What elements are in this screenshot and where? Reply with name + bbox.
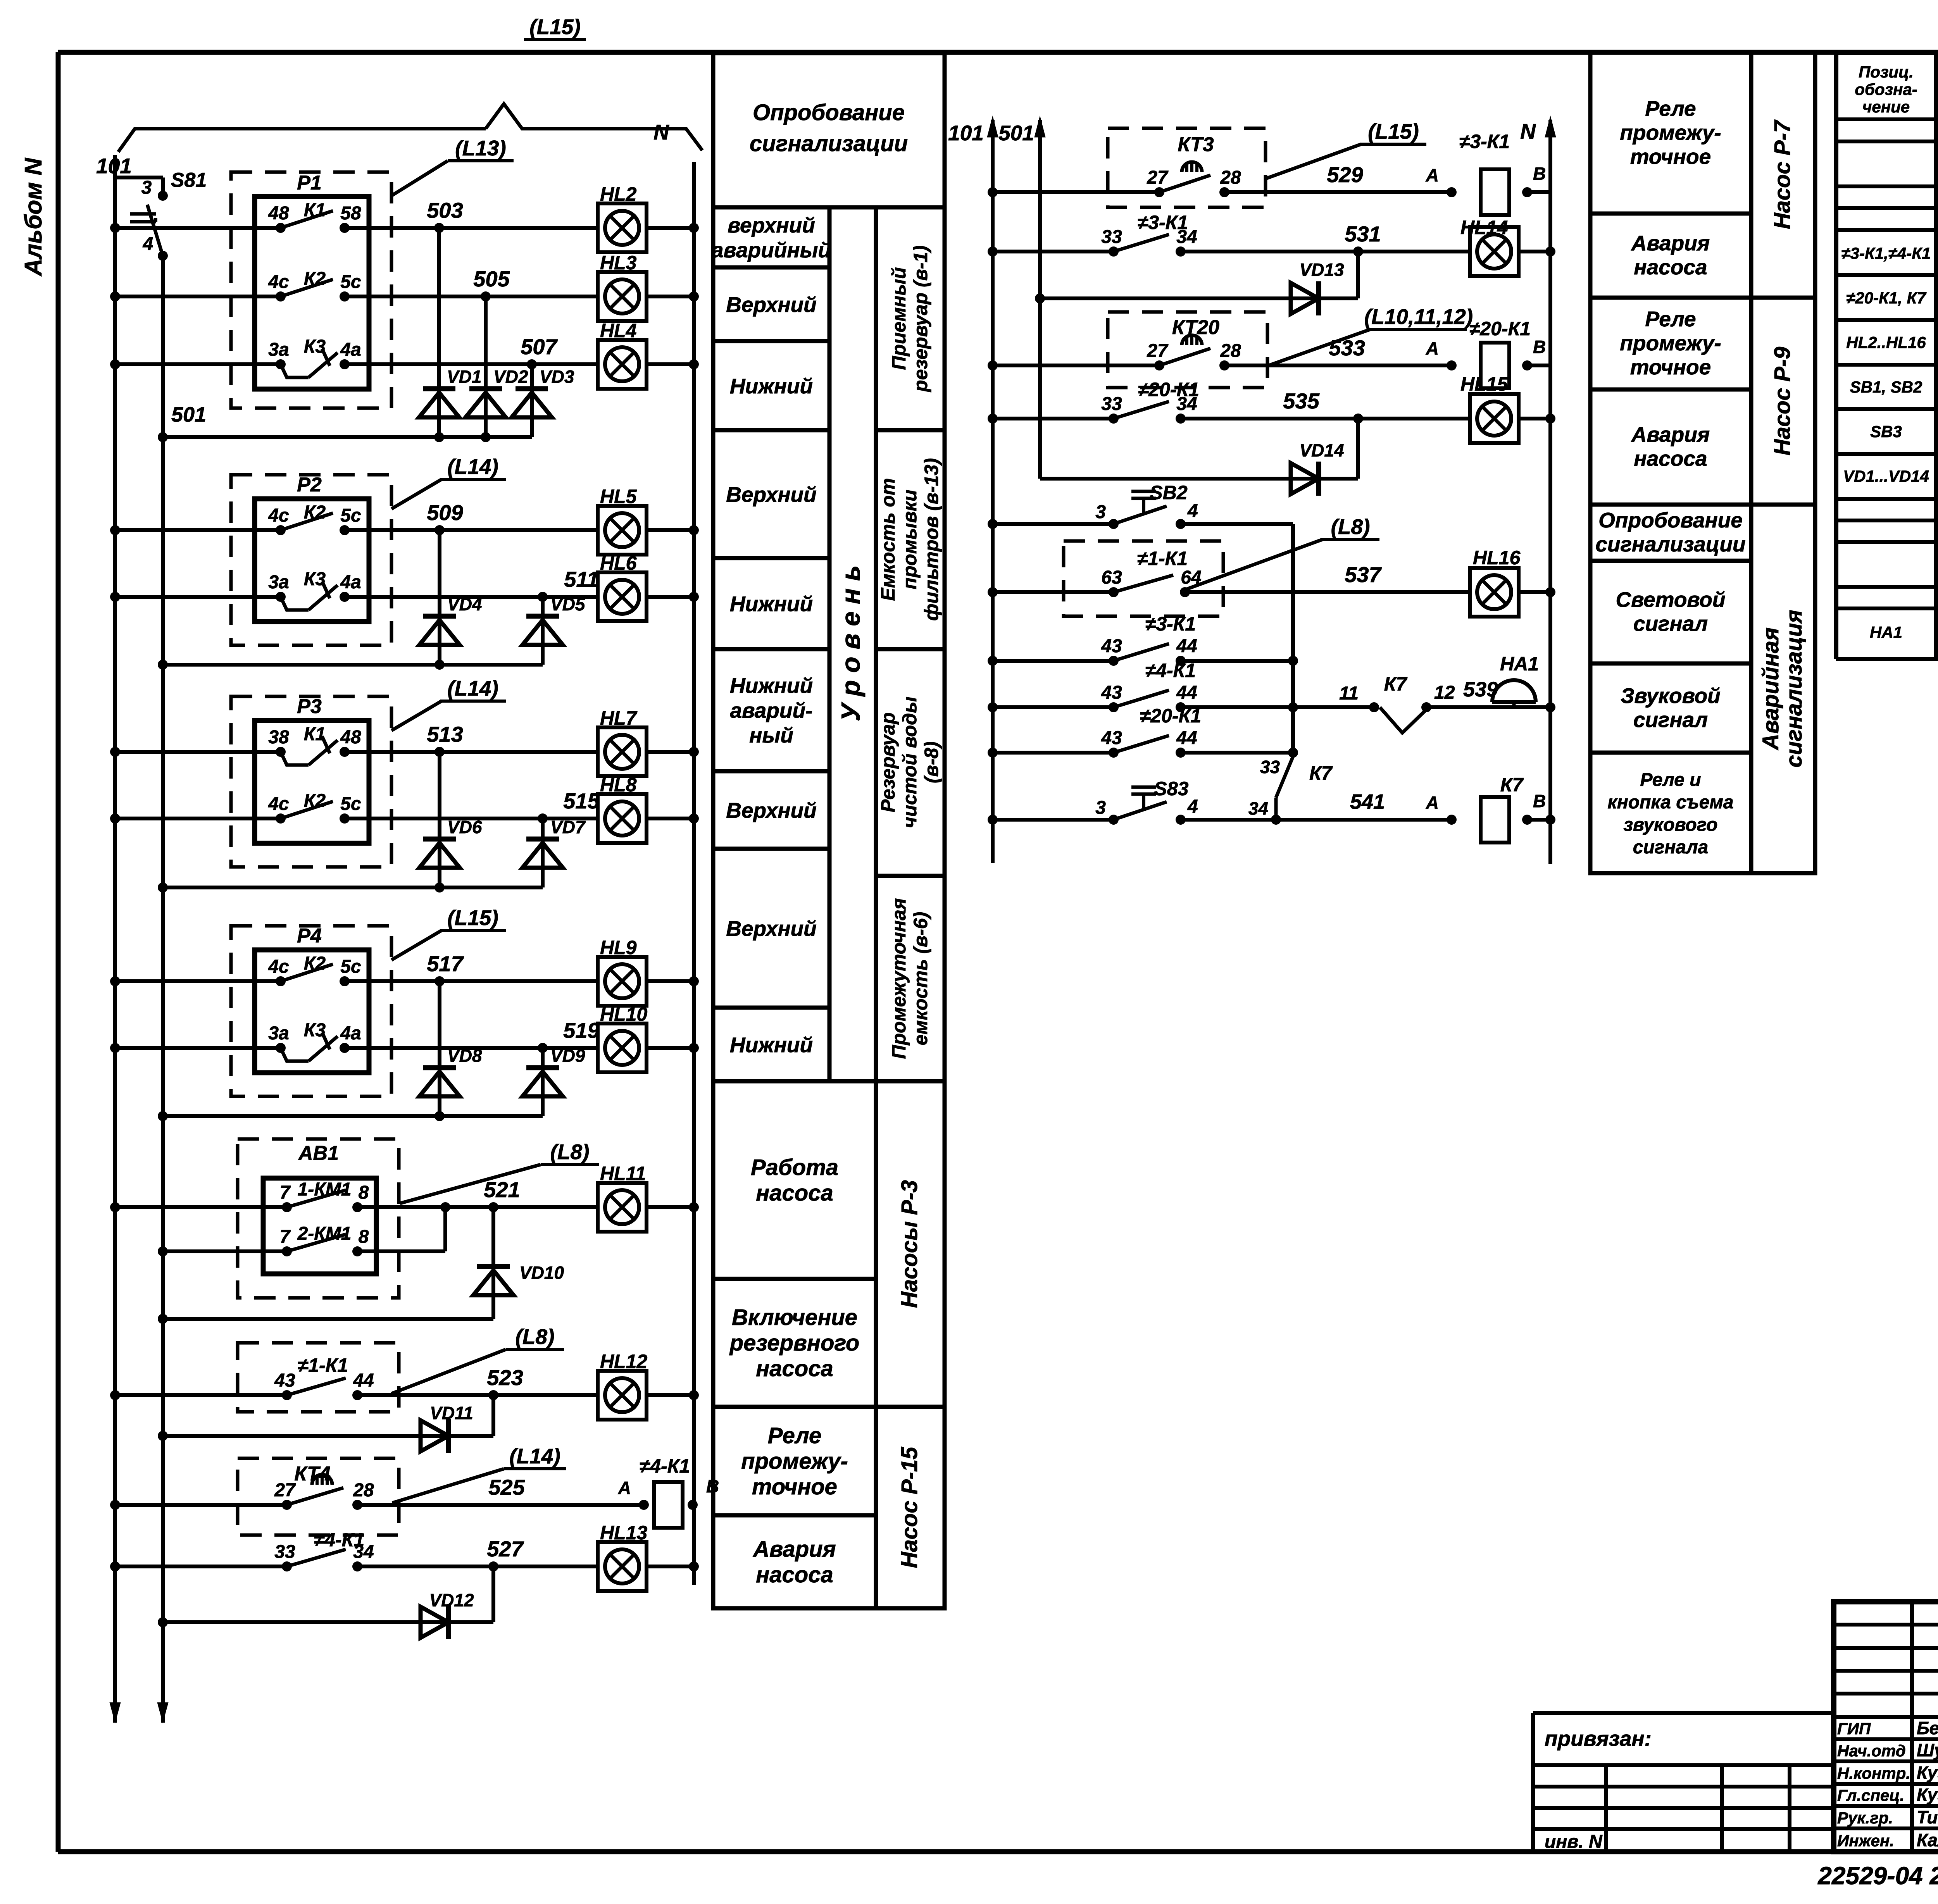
svg-text:513: 513 bbox=[427, 722, 463, 746]
svg-text:P2: P2 bbox=[297, 474, 322, 496]
svg-text:≠4-К1: ≠4-К1 bbox=[640, 1455, 690, 1477]
svg-text:4а: 4а bbox=[340, 339, 361, 360]
svg-text:А: А bbox=[1426, 793, 1439, 813]
svg-text:звукового: звукового bbox=[1624, 815, 1718, 835]
svg-text:Белоус: Белоус bbox=[1917, 1718, 1938, 1738]
svg-text:аварий-: аварий- bbox=[730, 698, 813, 722]
svg-text:Включение: Включение bbox=[732, 1305, 857, 1330]
svg-text:НА1: НА1 bbox=[1870, 623, 1902, 641]
svg-text:НА1: НА1 bbox=[1500, 653, 1539, 675]
svg-text:HL3: HL3 bbox=[600, 252, 637, 274]
svg-text:К2: К2 bbox=[304, 791, 326, 811]
svg-text:Реле: Реле bbox=[1645, 96, 1696, 121]
svg-text:519: 519 bbox=[563, 1018, 599, 1042]
svg-text:Световой: Световой bbox=[1616, 588, 1726, 612]
svg-text:501: 501 bbox=[171, 403, 206, 426]
svg-text:Нижний: Нижний bbox=[730, 374, 813, 398]
svg-text:емкость (в-6): емкость (в-6) bbox=[910, 912, 931, 1045]
svg-text:48: 48 bbox=[268, 203, 289, 224]
svg-text:насоса: насоса bbox=[1634, 446, 1707, 470]
svg-text:Нижний: Нижний bbox=[730, 674, 813, 698]
svg-text:8: 8 bbox=[359, 1227, 369, 1247]
svg-text:HL10: HL10 bbox=[600, 1003, 647, 1025]
svg-text:(L10,11,12): (L10,11,12) bbox=[1364, 305, 1473, 329]
svg-text:43: 43 bbox=[274, 1370, 295, 1391]
svg-text:Авария: Авария bbox=[752, 1537, 836, 1562]
svg-text:(L14): (L14) bbox=[447, 455, 498, 479]
svg-text:HL14: HL14 bbox=[1460, 217, 1508, 238]
svg-text:К3: К3 bbox=[304, 336, 326, 357]
svg-text:≠3-К1: ≠3-К1 bbox=[1145, 613, 1196, 635]
svg-text:(L15): (L15) bbox=[529, 15, 580, 39]
svg-text:точное: точное bbox=[752, 1474, 837, 1499]
svg-text:101: 101 bbox=[948, 121, 984, 145]
svg-text:К3: К3 bbox=[304, 569, 326, 589]
svg-text:VD6: VD6 bbox=[447, 817, 482, 837]
svg-text:Инжен.: Инжен. bbox=[1837, 1832, 1894, 1850]
svg-text:529: 529 bbox=[1327, 162, 1363, 187]
svg-text:1-КМ1: 1-КМ1 bbox=[298, 1179, 352, 1200]
svg-text:Верхний: Верхний bbox=[726, 293, 817, 317]
svg-text:27: 27 bbox=[1147, 167, 1169, 188]
svg-text:≠3-К1: ≠3-К1 bbox=[1138, 212, 1188, 233]
svg-text:HL15: HL15 bbox=[1460, 373, 1508, 395]
svg-text:фильтров (в-13): фильтров (в-13) bbox=[921, 458, 942, 621]
svg-text:(L8): (L8) bbox=[516, 1325, 555, 1349]
svg-text:(L15): (L15) bbox=[1368, 119, 1419, 143]
svg-text:HL12: HL12 bbox=[600, 1351, 647, 1372]
svg-text:VD11: VD11 bbox=[430, 1403, 473, 1423]
svg-text:насоса: насоса bbox=[756, 1180, 833, 1206]
svg-text:чение: чение bbox=[1862, 98, 1910, 116]
svg-text:523: 523 bbox=[487, 1365, 523, 1390]
svg-text:33: 33 bbox=[1101, 227, 1122, 247]
svg-text:541: 541 bbox=[1350, 790, 1385, 813]
svg-text:5с: 5с bbox=[340, 794, 361, 814]
svg-text:Нач.отд: Нач.отд bbox=[1837, 1742, 1906, 1760]
svg-text:3: 3 bbox=[1095, 502, 1106, 522]
svg-text:533: 533 bbox=[1329, 336, 1365, 360]
svg-text:А: А bbox=[1426, 338, 1439, 358]
svg-text:HL11: HL11 bbox=[600, 1163, 646, 1184]
svg-text:≠4-К1: ≠4-К1 bbox=[1145, 660, 1196, 681]
svg-text:≠4-К1: ≠4-К1 bbox=[314, 1529, 364, 1551]
svg-text:К1: К1 bbox=[304, 200, 326, 221]
svg-text:4: 4 bbox=[1187, 501, 1198, 521]
svg-text:сигнал: сигнал bbox=[1633, 708, 1708, 732]
svg-text:S81: S81 bbox=[171, 169, 207, 191]
svg-text:7: 7 bbox=[280, 1227, 291, 1247]
svg-text:515: 515 bbox=[563, 789, 600, 813]
svg-text:Калмыков: Калмыков bbox=[1917, 1830, 1938, 1850]
svg-text:В: В bbox=[1533, 164, 1546, 184]
svg-text:резервного: резервного bbox=[729, 1330, 860, 1356]
svg-text:537: 537 bbox=[1345, 562, 1382, 587]
svg-text:44: 44 bbox=[353, 1370, 374, 1391]
svg-text:2-КМ1: 2-КМ1 bbox=[297, 1223, 352, 1244]
svg-text:535: 535 bbox=[1283, 389, 1319, 413]
svg-text:4с: 4с bbox=[268, 956, 289, 977]
svg-text:VD10: VD10 bbox=[519, 1263, 564, 1283]
svg-text:промежу-: промежу- bbox=[1620, 121, 1721, 145]
svg-text:511: 511 bbox=[564, 567, 598, 591]
svg-text:43: 43 bbox=[1101, 682, 1122, 703]
svg-text:HL4: HL4 bbox=[600, 320, 636, 341]
svg-text:точное: точное bbox=[1630, 145, 1711, 169]
svg-text:(L8): (L8) bbox=[1331, 515, 1370, 539]
svg-text:В: В bbox=[1533, 791, 1546, 811]
svg-text:27: 27 bbox=[274, 1480, 296, 1501]
svg-text:HL5: HL5 bbox=[600, 486, 637, 507]
svg-text:Н.контр.: Н.контр. bbox=[1837, 1764, 1910, 1782]
svg-text:АВ1: АВ1 bbox=[298, 1142, 339, 1165]
svg-text:33: 33 bbox=[1101, 394, 1122, 414]
svg-text:101: 101 bbox=[96, 154, 132, 178]
svg-text:VD12: VD12 bbox=[429, 1590, 474, 1610]
svg-text:HL9: HL9 bbox=[600, 937, 637, 958]
svg-text:VD5: VD5 bbox=[550, 594, 586, 614]
svg-text:К7: К7 bbox=[1500, 774, 1524, 796]
svg-text:28: 28 bbox=[353, 1480, 374, 1501]
svg-text:34: 34 bbox=[1248, 798, 1268, 818]
svg-text:517: 517 bbox=[427, 951, 464, 976]
svg-text:Емкость от: Емкость от bbox=[877, 478, 899, 601]
svg-text:507: 507 bbox=[521, 334, 558, 359]
svg-text:525: 525 bbox=[488, 1475, 525, 1499]
svg-text:≠3-К1: ≠3-К1 bbox=[1459, 131, 1510, 152]
svg-text:VD2: VD2 bbox=[493, 367, 528, 387]
svg-text:насоса: насоса bbox=[1634, 255, 1707, 279]
svg-text:≠1-К1: ≠1-К1 bbox=[1137, 548, 1188, 569]
svg-text:VD3: VD3 bbox=[540, 367, 574, 387]
svg-text:43: 43 bbox=[1101, 636, 1122, 656]
svg-text:А: А bbox=[1426, 165, 1439, 185]
svg-text:SB3: SB3 bbox=[1870, 422, 1902, 441]
svg-text:44: 44 bbox=[1176, 636, 1197, 656]
svg-text:У р о в е н ь: У р о в е н ь bbox=[836, 565, 866, 722]
svg-text:Верхний: Верхний bbox=[726, 917, 817, 941]
svg-text:инв. N: инв. N bbox=[1545, 1832, 1603, 1852]
svg-text:HL6: HL6 bbox=[600, 552, 637, 574]
svg-text:верхний: верхний bbox=[728, 213, 815, 237]
svg-text:5с: 5с bbox=[340, 505, 361, 526]
svg-text:Резервуар: Резервуар bbox=[877, 712, 899, 812]
svg-text:В: В bbox=[1533, 337, 1546, 357]
svg-text:Шунский: Шунский bbox=[1917, 1740, 1938, 1760]
svg-text:А: А bbox=[618, 1478, 631, 1498]
svg-text:Насос Р-15: Насос Р-15 bbox=[897, 1447, 922, 1568]
svg-text:5с: 5с bbox=[340, 272, 361, 292]
svg-text:28: 28 bbox=[1220, 167, 1241, 188]
svg-text:3а: 3а bbox=[268, 572, 289, 593]
svg-text:Насос Р-9: Насос Р-9 bbox=[1770, 347, 1795, 455]
svg-text:509: 509 bbox=[427, 500, 463, 525]
svg-text:4а: 4а bbox=[340, 572, 361, 593]
svg-text:HL8: HL8 bbox=[600, 774, 637, 796]
svg-text:К7: К7 bbox=[1384, 673, 1408, 695]
svg-text:Работа: Работа bbox=[751, 1155, 838, 1180]
svg-text:N: N bbox=[1520, 119, 1536, 143]
svg-text:К2: К2 bbox=[304, 269, 326, 289]
svg-text:сигнализации: сигнализации bbox=[1595, 532, 1745, 556]
svg-text:Приемный: Приемный bbox=[888, 267, 910, 370]
svg-text:VD7: VD7 bbox=[550, 817, 586, 837]
svg-text:VD14: VD14 bbox=[1299, 440, 1344, 460]
svg-text:3: 3 bbox=[141, 177, 152, 198]
svg-text:К3: К3 bbox=[304, 1020, 326, 1041]
svg-text:≠20-К1, К7: ≠20-К1, К7 bbox=[1846, 289, 1926, 307]
svg-text:4а: 4а bbox=[340, 1023, 361, 1044]
svg-text:4с: 4с bbox=[268, 505, 289, 526]
svg-text:насоса: насоса bbox=[756, 1562, 833, 1587]
svg-text:58: 58 bbox=[340, 203, 361, 224]
svg-text:(в-8): (в-8) bbox=[921, 741, 942, 783]
svg-text:5с: 5с bbox=[340, 956, 361, 977]
svg-text:8: 8 bbox=[359, 1182, 369, 1203]
svg-text:P4: P4 bbox=[297, 925, 322, 947]
svg-text:промежу-: промежу- bbox=[1620, 331, 1721, 355]
svg-text:кнопка съема: кнопка съема bbox=[1607, 792, 1733, 813]
svg-text:503: 503 bbox=[427, 198, 463, 222]
svg-text:насоса: насоса bbox=[756, 1356, 833, 1381]
svg-text:33: 33 bbox=[274, 1542, 295, 1562]
svg-text:527: 527 bbox=[487, 1537, 524, 1561]
svg-text:VD1...VD14: VD1...VD14 bbox=[1843, 467, 1929, 485]
svg-text:Гл.спец.: Гл.спец. bbox=[1837, 1786, 1904, 1804]
svg-text:Звуковой: Звуковой bbox=[1621, 684, 1721, 708]
svg-text:Аварийная: Аварийная bbox=[1758, 627, 1783, 751]
svg-text:(L13): (L13) bbox=[455, 136, 506, 160]
svg-text:чистой воды: чистой воды bbox=[899, 696, 921, 828]
svg-text:сигнала: сигнала bbox=[1633, 837, 1708, 858]
svg-text:Титов: Титов bbox=[1917, 1807, 1938, 1827]
svg-text:HL2: HL2 bbox=[600, 183, 637, 205]
svg-text:≠20-К1: ≠20-К1 bbox=[1469, 318, 1531, 339]
svg-text:44: 44 bbox=[1176, 682, 1197, 703]
svg-text:HL7: HL7 bbox=[600, 707, 638, 729]
svg-text:VD9: VD9 bbox=[550, 1046, 585, 1066]
svg-text:Кузнецов: Кузнецов bbox=[1917, 1785, 1938, 1805]
svg-text:≠3-К1,≠4-К1: ≠3-К1,≠4-К1 bbox=[1841, 244, 1931, 262]
svg-text:К1: К1 bbox=[304, 724, 326, 744]
svg-text:SB2: SB2 bbox=[1150, 482, 1187, 503]
svg-text:SB1, SB2: SB1, SB2 bbox=[1850, 378, 1922, 396]
svg-text:Позиц.: Позиц. bbox=[1859, 63, 1914, 81]
svg-text:Насосы Р-3: Насосы Р-3 bbox=[897, 1180, 922, 1308]
svg-text:сигнал: сигнал bbox=[1633, 612, 1708, 636]
svg-text:3а: 3а bbox=[268, 1023, 289, 1044]
svg-text:≠1-К1: ≠1-К1 bbox=[298, 1354, 348, 1376]
svg-text:44: 44 bbox=[1176, 728, 1197, 748]
svg-text:63: 63 bbox=[1101, 567, 1122, 588]
svg-text:Авария: Авария bbox=[1631, 422, 1710, 446]
svg-text:7: 7 bbox=[280, 1182, 291, 1203]
svg-text:11: 11 bbox=[1339, 683, 1359, 704]
svg-text:4: 4 bbox=[1187, 796, 1198, 817]
svg-text:(L15): (L15) bbox=[447, 906, 498, 930]
svg-text:≠20-К1: ≠20-К1 bbox=[1138, 379, 1199, 400]
svg-text:Нижний: Нижний bbox=[730, 592, 813, 616]
svg-text:Промежуточная: Промежуточная bbox=[888, 898, 910, 1059]
svg-text:33: 33 bbox=[1260, 757, 1280, 777]
svg-text:обозна-: обозна- bbox=[1855, 80, 1917, 98]
svg-text:VD13: VD13 bbox=[1299, 260, 1344, 280]
svg-text:HL13: HL13 bbox=[600, 1522, 647, 1544]
svg-text:VD4: VD4 bbox=[447, 594, 482, 614]
svg-text:22529-04 27: 22529-04 27 bbox=[1817, 1862, 1938, 1890]
svg-text:КТ3: КТ3 bbox=[1178, 133, 1214, 156]
svg-text:3: 3 bbox=[1095, 798, 1106, 818]
svg-text:38: 38 bbox=[268, 727, 289, 748]
svg-text:промежу-: промежу- bbox=[741, 1449, 848, 1474]
svg-text:Рук.гр.: Рук.гр. bbox=[1837, 1809, 1893, 1827]
svg-text:P3: P3 bbox=[297, 695, 322, 718]
svg-text:сигнализации: сигнализации bbox=[750, 131, 908, 156]
svg-text:К2: К2 bbox=[304, 502, 326, 523]
svg-text:4с: 4с bbox=[268, 272, 289, 292]
svg-text:Реле и: Реле и bbox=[1640, 770, 1701, 790]
svg-text:28: 28 bbox=[1220, 341, 1241, 361]
svg-text:48: 48 bbox=[340, 727, 361, 748]
svg-text:4с: 4с bbox=[268, 794, 289, 814]
svg-text:сигнализация: сигнализация bbox=[1781, 610, 1807, 767]
svg-text:К2: К2 bbox=[304, 953, 326, 974]
svg-text:505: 505 bbox=[473, 267, 510, 291]
svg-text:501: 501 bbox=[998, 121, 1034, 145]
svg-text:Кузнецов: Кузнецов bbox=[1917, 1763, 1938, 1783]
svg-text:Опробование: Опробование bbox=[753, 100, 905, 125]
svg-text:43: 43 bbox=[1101, 728, 1122, 748]
svg-text:521: 521 bbox=[484, 1177, 520, 1202]
svg-text:резервуар (в-1): резервуар (в-1) bbox=[910, 245, 931, 393]
svg-text:HL2..HL16: HL2..HL16 bbox=[1846, 333, 1926, 352]
svg-text:HL16: HL16 bbox=[1473, 547, 1521, 569]
svg-text:Реле: Реле bbox=[1645, 307, 1696, 331]
svg-text:ный: ный bbox=[749, 723, 793, 747]
svg-text:Реле: Реле bbox=[768, 1423, 821, 1448]
svg-text:промывки: промывки bbox=[899, 489, 921, 589]
svg-text:(L8): (L8) bbox=[550, 1140, 590, 1164]
svg-text:Верхний: Верхний bbox=[726, 798, 817, 822]
svg-text:Насос Р-7: Насос Р-7 bbox=[1770, 119, 1795, 229]
svg-text:Авария: Авария bbox=[1631, 231, 1710, 255]
svg-text:(L14): (L14) bbox=[447, 676, 498, 700]
svg-text:P1: P1 bbox=[297, 172, 322, 194]
svg-text:≠20-К1: ≠20-К1 bbox=[1140, 705, 1201, 727]
svg-text:531: 531 bbox=[1345, 222, 1381, 246]
svg-text:12: 12 bbox=[1434, 682, 1455, 703]
svg-text:Нижний: Нижний bbox=[730, 1033, 813, 1057]
svg-text:S83: S83 bbox=[1154, 778, 1189, 800]
svg-text:Альбом N: Альбом N bbox=[20, 158, 47, 277]
svg-text:VD1: VD1 bbox=[447, 367, 481, 387]
svg-text:3а: 3а bbox=[268, 339, 289, 360]
svg-text:N: N bbox=[653, 120, 669, 144]
svg-text:точное: точное bbox=[1630, 355, 1711, 379]
svg-text:Опробование: Опробование bbox=[1598, 508, 1743, 532]
svg-text:27: 27 bbox=[1147, 341, 1169, 361]
svg-text:К7: К7 bbox=[1309, 762, 1333, 784]
svg-text:ГИП: ГИП bbox=[1837, 1720, 1871, 1738]
svg-text:4: 4 bbox=[143, 234, 153, 254]
svg-text:VD8: VD8 bbox=[447, 1046, 482, 1066]
svg-text:Верхний: Верхний bbox=[726, 482, 817, 507]
svg-text:привязан:: привязан: bbox=[1545, 1727, 1652, 1751]
svg-text:(L14): (L14) bbox=[509, 1444, 560, 1468]
svg-text:аварийный: аварийный bbox=[712, 238, 831, 262]
